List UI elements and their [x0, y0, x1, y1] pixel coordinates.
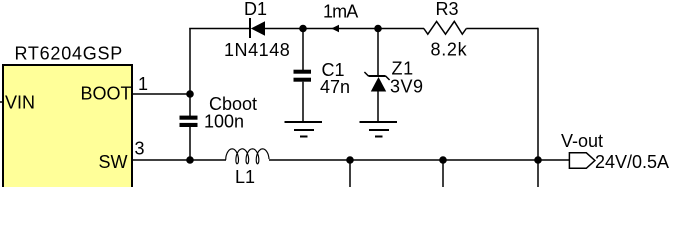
svg-text:100n: 100n	[204, 112, 244, 132]
svg-text:Z1: Z1	[392, 59, 414, 79]
node SW junction A	[346, 156, 354, 164]
svg-text:47n: 47n	[320, 77, 350, 97]
capacitor Cboot	[180, 116, 198, 127]
svg-text:BOOT: BOOT	[81, 84, 132, 104]
current arrow 1mA	[331, 25, 339, 33]
inductor L1	[226, 149, 269, 164]
svg-text:L1: L1	[235, 167, 255, 187]
wire Z1-node to R3	[378, 28, 424, 30]
node BOOT junction	[186, 90, 194, 98]
resistor R3	[424, 21, 467, 34]
svg-text:1: 1	[138, 74, 148, 94]
port flag V-out	[569, 153, 595, 169]
wire BOOT pin	[132, 93, 190, 95]
svg-text:RT6204GSP: RT6204GSP	[15, 44, 123, 64]
wire stub down A	[349, 160, 351, 187]
IC U1 RT6204GSP body	[3, 65, 132, 195]
capacitor C1	[294, 70, 312, 82]
node SW junction Vout	[534, 156, 542, 164]
node C1 top junction	[299, 25, 307, 33]
wire diode to C1 node	[265, 28, 303, 30]
svg-text:V-out: V-out	[561, 131, 603, 151]
svg-text:D1: D1	[244, 0, 267, 19]
diode D1	[250, 18, 265, 38]
node Z1 top junction	[374, 25, 382, 33]
svg-text:8.2k: 8.2k	[431, 40, 468, 60]
wire top rail left segment	[189, 28, 250, 30]
wire stub down Vout	[537, 160, 539, 187]
svg-text:1N4148: 1N4148	[224, 40, 290, 60]
wire stub down B	[442, 160, 444, 187]
wire C1-node to Z1-node	[303, 28, 378, 30]
svg-text:VIN: VIN	[5, 93, 35, 113]
svg-text:1mA: 1mA	[323, 2, 358, 22]
wire C1 bottom lead	[302, 82, 304, 122]
wire C1 top lead	[302, 29, 304, 71]
wire Cboot to SW	[189, 127, 191, 160]
ground C1	[285, 122, 323, 137]
svg-text:3: 3	[135, 139, 145, 159]
wire vertical boot to top rail	[189, 29, 191, 117]
ground Z1	[360, 122, 398, 137]
svg-text:R3: R3	[436, 0, 459, 19]
node Cboot-SW junction	[186, 156, 194, 164]
svg-text:24V/0.5A: 24V/0.5A	[595, 152, 669, 172]
wire Z1 bottom lead	[377, 91, 379, 122]
svg-text:3V9: 3V9	[390, 77, 424, 97]
svg-text:SW: SW	[99, 152, 128, 172]
wire VIN stub	[0, 101, 3, 103]
op-amp U1	[3, 44, 132, 196]
wire Z1 top lead	[377, 29, 379, 78]
wire R3 to right corner	[466, 28, 538, 30]
node SW junction B	[439, 156, 447, 164]
wire right vertical	[537, 28, 539, 160]
wire SW rail right	[269, 159, 570, 161]
wire SW rail left	[132, 159, 226, 161]
zener diode Z1	[364, 72, 389, 92]
